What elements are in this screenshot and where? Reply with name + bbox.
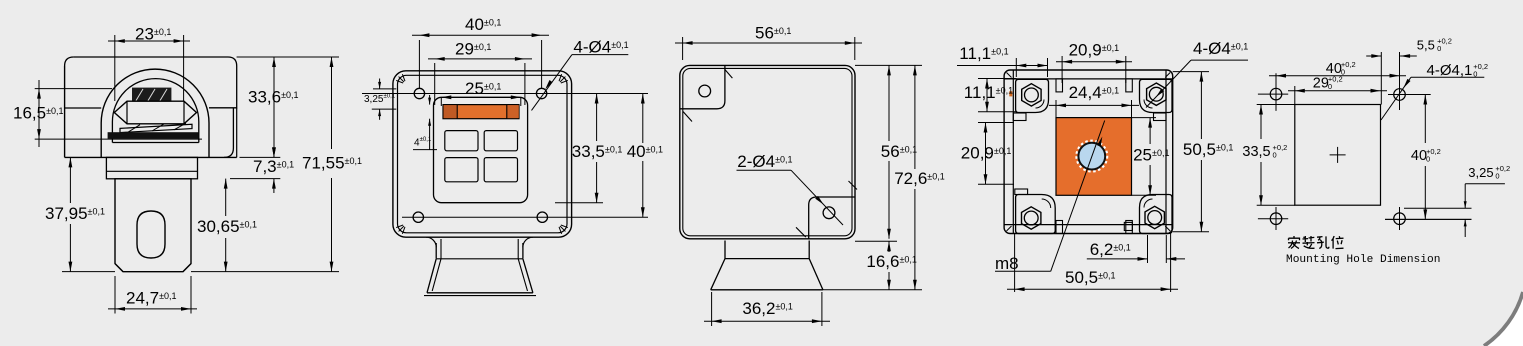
svg-text:5,5: 5,5	[1417, 38, 1435, 53]
svg-text:0: 0	[1495, 172, 1499, 181]
svg-text:0: 0	[1273, 151, 1277, 160]
svg-text:0: 0	[1426, 155, 1430, 164]
svg-text:29: 29	[1313, 76, 1329, 92]
svg-text:0: 0	[1437, 44, 1441, 53]
svg-text:40: 40	[1411, 148, 1427, 164]
svg-text:3,25: 3,25	[1468, 165, 1493, 180]
svg-text:0: 0	[1328, 82, 1332, 91]
svg-text:33,5: 33,5	[1242, 144, 1270, 160]
svg-text:4-Ø4,1: 4-Ø4,1	[1427, 62, 1473, 79]
svg-text:Mounting Hole Dimension: Mounting Hole Dimension	[1286, 254, 1440, 266]
